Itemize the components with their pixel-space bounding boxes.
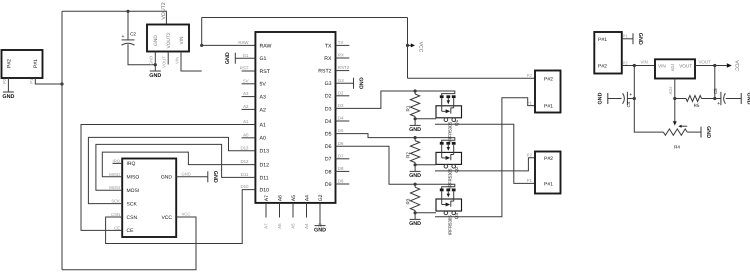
wire R3 node to Q3 — [415, 212, 436, 214]
svg-text:D7: D7 — [325, 157, 332, 163]
svg-text:D9: D9 — [325, 182, 332, 188]
svg-text:P#2: P#2 — [7, 59, 13, 68]
capacitor C5 (polarized) — [713, 88, 741, 107]
svg-text:Q1: Q1 — [454, 119, 459, 126]
svg-text:R1: R1 — [406, 105, 411, 111]
svg-text:ADJ: ADJ — [668, 87, 673, 95]
IC U2 right pin stubs and labels — [336, 40, 350, 184]
capacitor C2 (polarized) — [121, 10, 155, 65]
wire Q3 output — [435, 98, 535, 217]
transistor Q2 (IRFR5305) — [436, 142, 462, 168]
svg-text:D3: D3 — [325, 106, 332, 112]
svg-text:D5: D5 — [338, 128, 344, 133]
svg-text:CE: CE — [114, 225, 120, 230]
svg-text:P#1: P#1 — [598, 37, 607, 43]
svg-text:P#2: P#2 — [598, 64, 607, 70]
svg-text:G3: G3 — [338, 78, 344, 83]
svg-text:A1: A1 — [260, 122, 266, 128]
svg-text:GND: GND — [314, 227, 326, 233]
svg-text:A6: A6 — [277, 223, 282, 229]
svg-text:R2: R2 — [406, 152, 411, 158]
svg-text:GND: GND — [637, 33, 643, 45]
label IRFR5305 Q3 — [447, 213, 459, 236]
svg-text:D10: D10 — [260, 188, 270, 194]
IC U2 (main MCU) — [255, 32, 335, 203]
svg-text:RX: RX — [338, 53, 344, 58]
svg-text:VOUT2: VOUT2 — [166, 32, 172, 48]
ground under R3 — [409, 211, 421, 227]
svg-text:D3: D3 — [338, 103, 344, 108]
svg-text:D6: D6 — [325, 144, 332, 150]
svg-text:A1: A1 — [243, 119, 249, 124]
svg-text:P2: P2 — [623, 60, 629, 65]
svg-text:R5: R5 — [694, 103, 700, 108]
svg-text:RST: RST — [240, 66, 249, 71]
svg-text:GND: GND — [161, 175, 173, 181]
svg-text:C2: C2 — [130, 32, 136, 37]
svg-text:MOSI: MOSI — [127, 188, 140, 194]
wire SCK to D13 — [88, 137, 255, 203]
IC U2 left pin stubs and labels — [238, 40, 255, 189]
wire ADJ node / R5 — [673, 97, 686, 100]
svg-text:P2: P2 — [527, 153, 533, 158]
svg-text:C5: C5 — [713, 88, 718, 94]
svg-text:RAW: RAW — [238, 40, 249, 45]
svg-text:P1: P1 — [623, 34, 629, 39]
resistor R2 — [406, 136, 420, 165]
connector J3 (right bottom) — [535, 152, 561, 194]
ground at IC pin G1 (rotated left) — [225, 52, 255, 64]
svg-text:A0: A0 — [260, 136, 266, 142]
svg-text:MISO: MISO — [109, 172, 120, 177]
svg-text:D4: D4 — [338, 116, 344, 121]
pin P1 of J4 to ground — [622, 33, 643, 45]
wire R1 node to Q1 — [415, 118, 436, 120]
wire VCC to P2 of connector J2 — [408, 77, 536, 79]
svg-text:C4: C4 — [626, 101, 631, 107]
pin IRQ stub (n.c.) — [113, 162, 123, 164]
ground at module GND pin (rotated right) — [176, 171, 218, 183]
svg-text:D7: D7 — [338, 153, 344, 158]
svg-text:A3: A3 — [243, 91, 249, 96]
pin labels J2 — [527, 73, 533, 105]
label IRFR5305 Q2 — [447, 166, 459, 189]
wire Q2 output — [435, 158, 535, 171]
svg-text:VIN: VIN — [658, 64, 666, 69]
wire CSN to D10 — [106, 190, 256, 244]
svg-text:D13: D13 — [240, 145, 249, 150]
svg-text:P#2: P#2 — [544, 76, 553, 82]
node VCC (arrow symbol near IC) — [406, 42, 424, 53]
connector J4 (power input) — [594, 32, 622, 74]
wire R5 to C5 node — [702, 97, 717, 100]
svg-text:IRQ: IRQ — [113, 158, 121, 163]
svg-text:P#1: P#1 — [544, 181, 553, 187]
svg-text:VOUT2: VOUT2 — [161, 2, 167, 19]
svg-text:GND: GND — [149, 56, 154, 65]
svg-text:A5: A5 — [291, 195, 297, 201]
svg-text:A4: A4 — [304, 223, 309, 229]
connector J2 (right top) — [535, 71, 561, 113]
ground at C4 (rotated left) — [598, 92, 608, 104]
wire D3 to Q1 gate — [336, 91, 455, 108]
svg-text:VCC: VCC — [734, 60, 740, 71]
svg-text:Q3: Q3 — [454, 213, 459, 220]
pin ADJ of U4 — [668, 79, 675, 99]
wire VOUT2 bus (left vertical rail) — [62, 11, 166, 269]
svg-text:VOUT: VOUT — [162, 56, 167, 68]
svg-text:CSN: CSN — [127, 215, 138, 221]
svg-text:SCK: SCK — [111, 199, 120, 204]
wire A1 to CE — [81, 125, 255, 231]
svg-text:RST: RST — [260, 69, 271, 75]
ground under J1 P2 — [2, 84, 14, 100]
node VCC (far right arrow) — [727, 60, 740, 71]
svg-text:R4: R4 — [674, 145, 680, 150]
wire MOSI to D11 — [96, 144, 256, 190]
svg-text:VIN: VIN — [174, 57, 179, 64]
svg-text:GND: GND — [598, 92, 604, 104]
wire D5 to Q2 gate — [336, 134, 455, 142]
svg-text:RST2: RST2 — [318, 69, 331, 75]
svg-text:P#2: P#2 — [544, 156, 553, 162]
wire MISO to D12 — [102, 152, 255, 177]
svg-text:VIN: VIN — [641, 60, 648, 65]
pin labels J3 — [527, 153, 533, 184]
pin P2 of J4 to VIN — [622, 60, 655, 68]
svg-text:A6: A6 — [277, 195, 283, 201]
svg-text:IRFR5305: IRFR5305 — [447, 215, 452, 236]
svg-text:A7: A7 — [264, 195, 270, 201]
ground at U1 GND/C2 node — [149, 65, 161, 79]
svg-text:G2: G2 — [318, 194, 324, 201]
svg-text:G1: G1 — [260, 56, 267, 62]
svg-text:D2: D2 — [338, 90, 344, 95]
ground under R1 — [409, 117, 421, 133]
wire VOUT of U4 to VCC — [695, 59, 727, 67]
svg-text:P#1: P#1 — [33, 59, 39, 68]
svg-text:G1: G1 — [243, 53, 249, 58]
ground at R4 (rotated right) — [701, 126, 711, 138]
svg-text:GND: GND — [409, 127, 421, 133]
svg-text:D9: D9 — [338, 179, 344, 184]
capacitor C4 (polarized) — [608, 92, 636, 108]
svg-text:5V: 5V — [260, 82, 267, 88]
voltage regulator U4 (adjustable) — [655, 59, 695, 78]
svg-text:D5: D5 — [325, 132, 332, 138]
wire D6 to Q3 gate — [336, 146, 455, 188]
svg-text:GND: GND — [149, 73, 161, 79]
svg-text:D2: D2 — [325, 94, 332, 100]
svg-text:ADJ: ADJ — [670, 64, 675, 72]
IC U2 left pin names — [260, 43, 272, 193]
svg-text:+: + — [629, 92, 632, 98]
svg-text:GND: GND — [182, 172, 191, 177]
svg-text:D8: D8 — [325, 169, 332, 175]
svg-text:GND: GND — [2, 94, 14, 100]
svg-text:R3: R3 — [406, 198, 411, 204]
potentiometer R4 — [663, 99, 687, 150]
svg-text:GND: GND — [409, 221, 421, 227]
module U3 (radio) — [122, 159, 176, 238]
resistor R1 — [406, 89, 420, 118]
svg-text:GND: GND — [409, 173, 421, 179]
ground at C5 (rotated right) — [741, 93, 750, 105]
svg-text:SCK: SCK — [127, 201, 138, 207]
resistor R5 — [686, 96, 702, 109]
module U3 right pin names — [161, 175, 173, 221]
svg-text:+: + — [121, 34, 124, 40]
wire R4 to ground — [687, 131, 701, 133]
svg-text:+: + — [717, 101, 720, 107]
svg-text:D4: D4 — [325, 119, 332, 125]
svg-text:GND: GND — [358, 77, 364, 89]
svg-text:A2: A2 — [260, 107, 266, 113]
wire VIN node down to R4 — [634, 66, 663, 133]
svg-text:TX: TX — [338, 40, 344, 45]
svg-text:D12: D12 — [240, 159, 249, 164]
svg-text:D10: D10 — [240, 184, 249, 189]
wire C5 node to VOUT — [714, 66, 716, 99]
svg-text:CE: CE — [127, 228, 135, 234]
svg-text:D6: D6 — [338, 141, 344, 146]
svg-text:A3: A3 — [260, 95, 266, 101]
svg-text:D8: D8 — [338, 166, 344, 171]
transistor Q1 (IRFR5305) — [436, 95, 462, 121]
svg-text:A5: A5 — [291, 223, 296, 229]
svg-text:GND: GND — [153, 35, 159, 46]
pin VIN of U1 wire to VCC rail — [174, 52, 201, 72]
svg-text:MISO: MISO — [127, 175, 140, 181]
svg-text:D13: D13 — [260, 149, 270, 155]
pin GND of U1 — [149, 52, 157, 67]
svg-text:D11: D11 — [260, 175, 269, 181]
svg-text:VCC: VCC — [418, 42, 424, 53]
svg-text:GND: GND — [705, 126, 711, 138]
pin VOUT of U1 — [162, 52, 169, 68]
svg-text:RST2: RST2 — [338, 65, 350, 70]
wire module VCC to bottom rail — [62, 212, 196, 270]
svg-text:G3: G3 — [325, 81, 332, 87]
svg-text:GND: GND — [225, 52, 231, 64]
svg-text:IRQ: IRQ — [127, 161, 136, 167]
svg-text:RAW: RAW — [260, 43, 272, 49]
svg-text:MOSI: MOSI — [109, 185, 120, 190]
resistor R3 — [406, 183, 420, 213]
svg-text:P#1: P#1 — [544, 104, 553, 110]
svg-text:RX: RX — [324, 56, 332, 62]
svg-text:P1: P1 — [527, 100, 533, 105]
svg-text:VCC: VCC — [161, 215, 172, 221]
voltage regulator U1 (5V) — [147, 25, 189, 52]
IC U2 right pin names — [318, 43, 332, 188]
svg-text:GND: GND — [212, 171, 218, 183]
svg-text:P1: P1 — [527, 178, 533, 183]
svg-text:Q2: Q2 — [454, 166, 459, 173]
svg-text:A7: A7 — [264, 223, 269, 229]
ground at IC pin G2 — [314, 218, 326, 234]
svg-text:A0: A0 — [243, 132, 249, 137]
svg-text:CSN: CSN — [111, 212, 120, 217]
wire Q1 output — [435, 124, 535, 183]
IC U2 bottom pins A7 A6 A5 A4 G2 — [264, 194, 324, 228]
svg-text:P2: P2 — [2, 78, 7, 84]
svg-text:VOUT: VOUT — [679, 64, 692, 69]
svg-text:GND: GND — [745, 93, 750, 105]
svg-text:P1: P1 — [29, 78, 34, 84]
wire RAW to VCC rail — [200, 44, 255, 47]
svg-text:D11: D11 — [241, 172, 249, 177]
wire VCC top rail — [202, 18, 408, 79]
svg-text:A4: A4 — [304, 195, 310, 201]
svg-text:VOUT: VOUT — [699, 59, 712, 64]
ground at IC pin G3 (rotated right) — [336, 77, 364, 89]
svg-text:TX: TX — [325, 43, 332, 49]
module U3 left pin names — [127, 161, 140, 234]
wire R2 node to Q2 — [415, 164, 436, 166]
svg-text:VCC: VCC — [182, 212, 191, 217]
label IRFR5305 Q1 — [447, 119, 459, 142]
svg-text:P2: P2 — [527, 73, 533, 78]
svg-text:A2: A2 — [243, 104, 249, 109]
connector J1 (left 2-pin) — [2, 50, 43, 78]
svg-text:5V: 5V — [243, 78, 248, 83]
transistor Q3 (IRFR5305) — [436, 189, 462, 215]
module U3 left gray pin labels — [109, 158, 120, 230]
pin P2 of J1 — [2, 78, 8, 84]
pin P1 of J1 + wire to bus — [29, 78, 64, 86]
svg-text:VIN: VIN — [179, 36, 185, 45]
svg-text:D12: D12 — [260, 163, 270, 169]
ground under R2 — [409, 163, 421, 179]
